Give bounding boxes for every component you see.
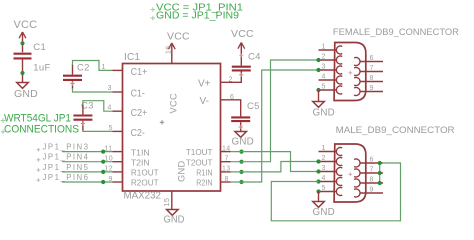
svg-text:8: 8 bbox=[370, 177, 374, 184]
svg-text:C2: C2 bbox=[77, 62, 90, 73]
supply VCC arrow (top-left) bbox=[19, 32, 22, 38]
junction dot pin 14 bbox=[239, 150, 243, 154]
male pin 3 line bbox=[319, 171, 337, 173]
pin stub 7 bbox=[221, 161, 231, 163]
junction dot male pin4 bbox=[316, 179, 320, 183]
capacitor C3 bbox=[73, 114, 92, 116]
svg-text:12: 12 bbox=[105, 166, 113, 173]
male pin 7 line bbox=[360, 172, 383, 174]
net label JP1_PIN6 bbox=[37, 179, 41, 181]
svg-text:1: 1 bbox=[102, 64, 106, 71]
female pin 5 line bbox=[319, 89, 337, 91]
svg-text:IC1: IC1 bbox=[124, 52, 140, 63]
svg-text:3: 3 bbox=[322, 64, 326, 71]
note GND = JP1_PIN9 bbox=[151, 17, 155, 19]
svg-text:6: 6 bbox=[370, 55, 374, 62]
svg-text:C1+: C1+ bbox=[131, 67, 148, 78]
wire C3 top to IC pin4 bbox=[83, 101, 113, 112]
pin stub 8 bbox=[221, 181, 231, 183]
male pin 4 arc bbox=[336, 178, 342, 186]
female pin 7 line bbox=[360, 71, 383, 73]
male pin 9 arc bbox=[354, 189, 360, 197]
junction dot male pin5 bbox=[316, 189, 320, 193]
capacitor C2 bbox=[63, 75, 82, 77]
junction dot female pin2 bbox=[316, 58, 320, 62]
svg-text:R2OUT: R2OUT bbox=[131, 179, 159, 188]
junction dot JP1_PIN6 bbox=[101, 180, 105, 184]
pin stub C2 top bbox=[72, 65, 74, 75]
ground symbol (top-left) bbox=[17, 83, 29, 89]
male pin 6 line bbox=[360, 162, 383, 164]
svg-text:8: 8 bbox=[225, 176, 229, 183]
svg-text:T1OUT: T1OUT bbox=[186, 148, 213, 157]
origin cross C3 bbox=[81, 123, 85, 125]
pin stub C3 bottom bbox=[82, 121, 84, 131]
male pin 2 line bbox=[319, 161, 337, 163]
male pin 7 arc bbox=[354, 169, 360, 177]
wire T1OUT to male pin3 bbox=[231, 152, 319, 172]
svg-text:3: 3 bbox=[108, 85, 112, 92]
pin stub C3 top bbox=[82, 104, 84, 114]
female pin 2 arc bbox=[336, 56, 342, 64]
capacitor C1 bbox=[14, 53, 32, 55]
ground symbol female bbox=[313, 102, 325, 108]
svg-text:T1IN: T1IN bbox=[131, 148, 150, 157]
junction dot male pin6 bbox=[378, 161, 382, 165]
wire male pin5 to ground bbox=[318, 192, 320, 202]
origin cross IC1 bbox=[160, 121, 164, 123]
svg-text:C2+: C2+ bbox=[131, 108, 148, 119]
male pin 1 line bbox=[319, 151, 337, 153]
svg-text:16: 16 bbox=[165, 46, 172, 54]
junction dot JP1_PIN4 bbox=[101, 160, 105, 164]
note VCC = JP1_PIN1 bbox=[151, 9, 155, 11]
pin stub 13 bbox=[221, 171, 231, 173]
wire IC pin6 V- to C5 bbox=[221, 100, 241, 117]
male origin cross bbox=[348, 173, 352, 175]
connector X2 MALE_DB9 body bbox=[334, 144, 366, 202]
svg-text:6: 6 bbox=[230, 94, 234, 101]
svg-text:13: 13 bbox=[222, 166, 230, 173]
capacitor C5 bbox=[231, 116, 250, 118]
wire male pins 6-7-8 tie bbox=[379, 163, 381, 183]
net label JP1_PIN3 bbox=[37, 149, 41, 151]
svg-text:6: 6 bbox=[370, 157, 374, 164]
svg-text:3: 3 bbox=[322, 165, 326, 172]
svg-text:1: 1 bbox=[322, 145, 326, 152]
ground symbol below IC bbox=[167, 210, 179, 216]
pin stub 9 bbox=[113, 181, 123, 183]
svg-text:GND: GND bbox=[14, 88, 38, 100]
female pin 7 arc bbox=[354, 68, 360, 76]
female pin 4 line bbox=[319, 79, 337, 81]
svg-text:R1IN: R1IN bbox=[196, 169, 212, 178]
svg-text:2: 2 bbox=[229, 76, 233, 83]
wire VCC to C4 bbox=[240, 55, 242, 66]
male pin 8 line bbox=[360, 182, 383, 184]
male pin 8 arc bbox=[354, 179, 360, 187]
pin 4 stub bbox=[113, 110, 123, 112]
supply VCC arrow above IC bbox=[168, 43, 171, 49]
female pin 2 line bbox=[319, 59, 337, 61]
ground symbol male bbox=[313, 202, 325, 208]
svg-text:R1OUT: R1OUT bbox=[131, 169, 159, 178]
svg-text:GND: GND bbox=[176, 160, 186, 182]
svg-text:8: 8 bbox=[370, 75, 374, 82]
svg-text:9: 9 bbox=[370, 85, 374, 92]
note WRT54GL JP1 bbox=[1, 120, 5, 122]
wire C2 bottom to IC pin3 bbox=[73, 88, 113, 92]
wire JP1_PIN5 to IC bbox=[62, 171, 113, 173]
wire C2 top to IC pin1 bbox=[73, 61, 113, 71]
svg-text:WRT54GL JP1: WRT54GL JP1 bbox=[4, 112, 71, 124]
female pin 8 arc bbox=[354, 78, 360, 86]
svg-text:GND: GND bbox=[164, 215, 185, 226]
pin 15 stub bbox=[171, 191, 173, 210]
wire JP1_PIN4 to IC bbox=[62, 161, 113, 163]
male pin 3 arc bbox=[336, 168, 342, 176]
svg-text:MALE_DB9_CONNECTOR: MALE_DB9_CONNECTOR bbox=[336, 125, 455, 136]
wire JP1_PIN6 to IC bbox=[62, 181, 113, 183]
svg-text:V-: V- bbox=[200, 96, 209, 107]
junction dot pin 13 bbox=[239, 170, 243, 174]
junction dot female pin3 bbox=[316, 68, 320, 72]
pin 1 stub bbox=[113, 69, 123, 71]
svg-text:CONNECTIONS: CONNECTIONS bbox=[4, 124, 79, 136]
svg-text:10: 10 bbox=[105, 156, 113, 163]
wire C3 bottom to IC pin5 bbox=[83, 130, 113, 131]
pin stub 10 bbox=[113, 161, 123, 163]
capacitor C4 bbox=[232, 66, 251, 68]
svg-text:2: 2 bbox=[322, 54, 326, 61]
pin 5 stub bbox=[113, 130, 123, 132]
svg-text:FEMALE_DB9_CONNECTOR: FEMALE_DB9_CONNECTOR bbox=[333, 27, 459, 38]
svg-text:9: 9 bbox=[370, 187, 374, 194]
svg-text:VCC: VCC bbox=[231, 28, 254, 40]
junction dot male pin8 bbox=[378, 181, 382, 185]
pin stub C2 bottom bbox=[72, 81, 74, 89]
svg-text:GND: GND bbox=[313, 207, 335, 218]
pin 3 stub bbox=[113, 91, 123, 93]
pin stub 11 bbox=[113, 151, 123, 153]
svg-text:C1: C1 bbox=[33, 42, 46, 53]
svg-text:JP1_PIN5: JP1_PIN5 bbox=[43, 163, 89, 172]
svg-text:MAX232: MAX232 bbox=[124, 191, 162, 202]
female pin 8 line bbox=[360, 81, 383, 83]
female pin 9 line bbox=[360, 91, 383, 93]
svg-text:5: 5 bbox=[109, 125, 113, 132]
svg-text:VCC: VCC bbox=[167, 31, 190, 43]
male pin 5 line bbox=[319, 191, 337, 193]
svg-text:1: 1 bbox=[322, 44, 326, 51]
svg-text:JP1_PIN3: JP1_PIN3 bbox=[43, 143, 89, 152]
svg-text:V+: V+ bbox=[198, 79, 211, 90]
connector X1 FEMALE_DB9 body bbox=[334, 43, 366, 101]
svg-text:2: 2 bbox=[322, 155, 326, 162]
svg-text:GND: GND bbox=[313, 107, 335, 118]
svg-text:JP1_PIN4: JP1_PIN4 bbox=[43, 153, 89, 162]
male pin 1 arc bbox=[336, 148, 342, 156]
supply VCC arrow above C4 bbox=[238, 43, 241, 49]
junction dot JP1_PIN3 bbox=[101, 150, 105, 154]
origin cross C4 bbox=[239, 74, 243, 76]
svg-text:9: 9 bbox=[109, 176, 113, 183]
female pin 1 arc bbox=[336, 46, 342, 54]
pin stub 12 bbox=[113, 171, 123, 173]
wire T2OUT to female pin2 bbox=[231, 60, 319, 162]
svg-text:7: 7 bbox=[370, 65, 374, 72]
wire R2IN to female pin3 bbox=[231, 70, 319, 182]
ground symbol below C5 bbox=[235, 132, 247, 138]
male pin 4 line bbox=[319, 181, 337, 183]
junction dot below C1 bbox=[20, 71, 24, 75]
wire C1 to GND bbox=[22, 60, 24, 83]
wire male pin4 tie loop bbox=[271, 163, 400, 221]
svg-text:VCC: VCC bbox=[169, 93, 179, 114]
junction dot male pin2 bbox=[316, 159, 320, 163]
wire JP1_PIN3 to IC bbox=[62, 151, 113, 153]
svg-text:1uF: 1uF bbox=[33, 63, 50, 74]
female pin 6 arc bbox=[354, 57, 360, 65]
junction dot male pin7 bbox=[378, 171, 382, 175]
pin 16 stub bbox=[171, 55, 173, 64]
wire VCC arrow to C1 bbox=[22, 44, 24, 52]
female pin 4 arc bbox=[336, 76, 342, 84]
junction dot pin 7 bbox=[239, 160, 243, 164]
female pin 6 line bbox=[360, 61, 383, 63]
pin stub 14 bbox=[221, 151, 231, 153]
origin cross C2 bbox=[70, 83, 74, 85]
junction dot above C1 bbox=[20, 41, 24, 45]
svg-text:VCC: VCC bbox=[14, 19, 38, 31]
svg-text:GND = JP1_PIN9: GND = JP1_PIN9 bbox=[156, 11, 239, 22]
male pin 9 line bbox=[360, 192, 383, 194]
svg-text:14: 14 bbox=[222, 145, 230, 152]
svg-text:11: 11 bbox=[105, 145, 113, 152]
female pin 9 arc bbox=[354, 88, 360, 96]
svg-text:7: 7 bbox=[225, 156, 229, 163]
svg-text:C4: C4 bbox=[248, 52, 261, 63]
female pin 3 arc bbox=[336, 66, 342, 74]
junction dot female pin5 bbox=[316, 88, 320, 92]
svg-text:4: 4 bbox=[108, 105, 112, 112]
svg-text:T2IN: T2IN bbox=[131, 158, 150, 167]
net label JP1_PIN4 bbox=[37, 159, 41, 161]
svg-text:R2IN: R2IN bbox=[196, 179, 212, 188]
svg-text:5: 5 bbox=[322, 185, 326, 192]
female pin 5 arc bbox=[336, 86, 342, 94]
wire female pin5 to ground bbox=[318, 90, 320, 102]
IC U1 MAX232 body bbox=[123, 64, 221, 192]
svg-text:15: 15 bbox=[162, 198, 171, 207]
svg-text:C5: C5 bbox=[247, 101, 260, 112]
net label JP1_PIN5 bbox=[37, 169, 41, 171]
female pin 1 line bbox=[319, 49, 337, 51]
wire R1IN to male pin2 bbox=[231, 162, 319, 172]
junction dot pin 8 bbox=[239, 180, 243, 184]
wire C5 to ground bbox=[240, 122, 242, 131]
svg-text:T2OUT: T2OUT bbox=[186, 158, 213, 167]
svg-text:GND: GND bbox=[232, 136, 254, 147]
male pin 5 arc bbox=[336, 188, 342, 196]
male pin 2 arc bbox=[336, 158, 342, 166]
svg-text:4: 4 bbox=[322, 74, 326, 81]
svg-text:C2-: C2- bbox=[131, 128, 145, 139]
female pin 3 line bbox=[319, 69, 337, 71]
svg-text:5: 5 bbox=[322, 84, 326, 91]
junction dot JP1_PIN5 bbox=[101, 170, 105, 174]
male pin 6 arc bbox=[354, 159, 360, 167]
female origin cross bbox=[348, 72, 352, 74]
origin cross C5 bbox=[239, 126, 243, 128]
note CONNECTIONS bbox=[1, 131, 5, 133]
svg-text:C1-: C1- bbox=[131, 89, 145, 100]
svg-text:7: 7 bbox=[370, 167, 374, 174]
wire C4 to IC pin2 V+ bbox=[221, 72, 242, 83]
svg-text:JP1_PIN6: JP1_PIN6 bbox=[43, 173, 89, 182]
svg-text:4: 4 bbox=[322, 175, 326, 182]
junction dot male pin3 bbox=[316, 169, 320, 173]
